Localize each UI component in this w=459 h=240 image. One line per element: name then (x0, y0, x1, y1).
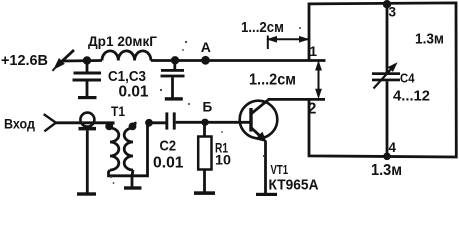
svg-text:С4: С4 (400, 72, 415, 86)
node junction left of Dr1 (83, 56, 91, 64)
svg-text:10: 10 (215, 153, 231, 168)
ground under R1 (194, 191, 215, 195)
svg-text:1...2см: 1...2см (241, 19, 284, 36)
transistor emitter lead with arrow (252, 128, 266, 193)
svg-text:0.01: 0.01 (119, 84, 149, 101)
svg-text:Т1: Т1 (111, 104, 125, 119)
wire: input to connector (56, 121, 115, 124)
variable capacitor C4 branch (372, 4, 400, 157)
scan specks (110, 27, 301, 184)
node point 3 (383, 0, 391, 8)
capacitor C2 (165, 112, 175, 129)
transformer ground stem (131, 176, 134, 187)
svg-text:1.3м: 1.3м (415, 32, 444, 48)
ground under C3 (165, 97, 183, 100)
wire: C2 to node B (176, 121, 205, 124)
svg-text:КТ965А: КТ965А (269, 178, 319, 194)
svg-text:3: 3 (389, 5, 397, 20)
ground under emitter (256, 193, 277, 196)
dimension arrow vertical between points 1 and 2 (316, 62, 321, 98)
transistor VT1 circle (240, 101, 278, 139)
wire: secondary bottom drop (132, 170, 133, 176)
svg-text:Б: Б (203, 100, 213, 115)
secondary polarity dot (129, 123, 137, 131)
svg-text:1: 1 (309, 43, 317, 59)
transistor collector lead (252, 99, 268, 113)
input arrow terminal (44, 114, 56, 131)
ground under transformer (124, 186, 142, 189)
connector jack circle (80, 113, 94, 127)
connector shell bar (79, 127, 97, 130)
node B junction (201, 119, 208, 126)
svg-text:0.01: 0.01 (153, 155, 184, 172)
primary polarity dot (105, 123, 113, 131)
svg-text:1.3м: 1.3м (371, 162, 402, 179)
supply input arrow (53, 50, 75, 71)
ground under connector (77, 192, 96, 195)
wire: node B to transistor base (205, 121, 250, 124)
wire: Dr1 to node A (151, 59, 206, 62)
transformer T1 secondary winding (124, 123, 136, 170)
svg-text:1...2см: 1...2см (249, 72, 296, 89)
ground under C1 (78, 96, 97, 99)
node A junction (201, 56, 210, 65)
transistor base bar (249, 108, 252, 132)
svg-text:Др1 20мкГ: Др1 20мкГ (88, 33, 157, 49)
wire: node A to loop point 1 (206, 59, 326, 62)
loop antenna frame (left edge upper) (309, 3, 456, 157)
node junction of C3 (171, 56, 179, 64)
svg-text:С2: С2 (160, 138, 177, 155)
wire: junction to C2 (149, 121, 166, 124)
wire: supply to node of C1 (62, 59, 102, 62)
svg-text:+12.6В: +12.6В (1, 52, 48, 69)
dimension arrow horizontal with tick (268, 36, 308, 50)
wire: winding bottoms common (109, 123, 148, 176)
svg-text:4...12: 4...12 (393, 89, 430, 105)
connector ground stem (86, 130, 89, 192)
svg-text:А: А (201, 39, 211, 55)
capacitor C3 to ground (161, 61, 185, 98)
svg-text:4: 4 (389, 140, 397, 155)
resistor R1 to ground (198, 122, 211, 192)
svg-text:Вход: Вход (4, 116, 35, 132)
node point 4 (383, 153, 391, 161)
inductor Dr1 choke humps (102, 51, 151, 61)
node junction secondary top (145, 119, 153, 127)
wire: collector to loop point 2 (268, 98, 326, 101)
svg-text:VT1: VT1 (271, 162, 289, 177)
capacitor C1 to ground (73, 61, 102, 97)
transformer T1 primary winding (110, 123, 119, 170)
